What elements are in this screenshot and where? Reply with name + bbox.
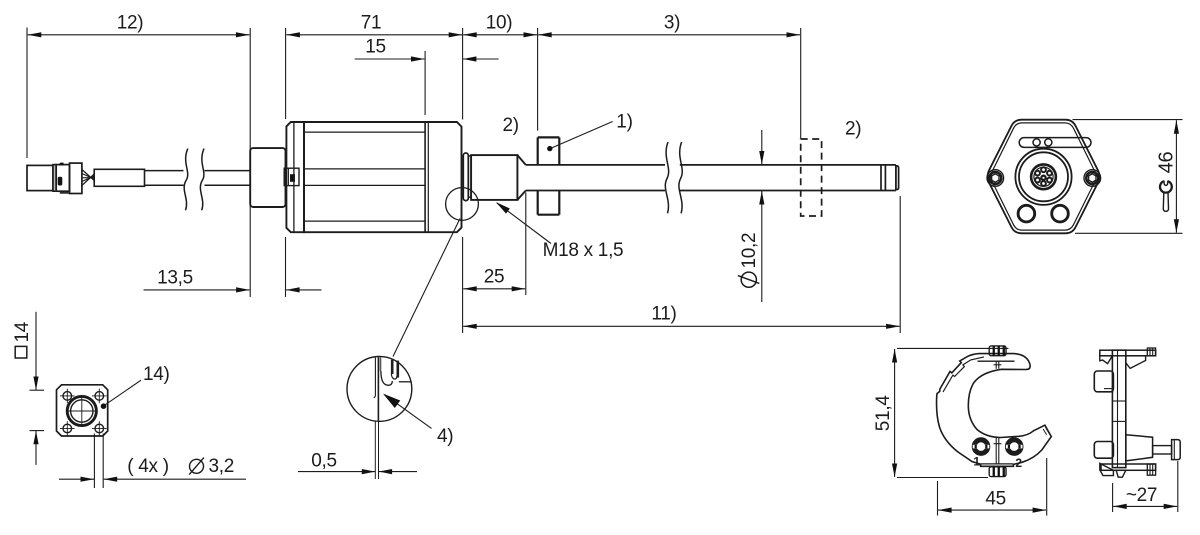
- rod break curve right: [679, 142, 682, 213]
- dimension sq14 arrow bottom: [33, 431, 38, 445]
- svg-text:25: 25: [484, 267, 505, 288]
- detail u cup: [391, 374, 396, 379]
- dimension 15 ext line: [424, 51, 426, 115]
- dimension 46 ext bottom: [1075, 232, 1183, 234]
- hex top slot: [1019, 138, 1091, 148]
- dimension 27 arrow right: [1164, 504, 1178, 509]
- hex connector ring: [1031, 164, 1056, 189]
- dimension 3 line: [538, 34, 800, 36]
- svg-text:15: 15: [365, 37, 386, 58]
- position magnet 1: [538, 137, 560, 214]
- svg-text:1: 1: [973, 455, 980, 469]
- clamp side spine div1: [1112, 400, 1125, 402]
- body inner mid lower line: [304, 184, 425, 186]
- thread M18 body: [471, 155, 517, 200]
- rod break curve left: [665, 142, 668, 213]
- clamp top stem: [995, 361, 997, 369]
- dimension 12 ext line left: [26, 28, 28, 159]
- dimension sq14 arrow top: [33, 377, 38, 391]
- dimension 25 arrow left: [463, 286, 477, 291]
- dimension 12 arrow left: [28, 32, 42, 37]
- dimension dia10,2 label: [738, 233, 760, 288]
- hex slot hole right: [1045, 139, 1052, 146]
- dimension 15 arrow right: [463, 56, 477, 61]
- clamp side top tooth: [1126, 356, 1146, 369]
- dimension 51,4 arrow bottom: [892, 464, 897, 478]
- body left end cap: [286, 122, 304, 232]
- dimension sq14 line bottom: [35, 431, 37, 465]
- body left cap inner line: [293, 122, 295, 232]
- cable break curve right: [200, 149, 204, 211]
- label 14 dot: [101, 403, 107, 409]
- cable break curve left: [184, 149, 188, 211]
- dimension 12 ext line right: [249, 28, 251, 297]
- washer: [468, 156, 471, 197]
- dimension 3,2 label dia: [190, 459, 204, 473]
- dimension 10 ext line right: [537, 28, 539, 131]
- thread chamfer bottom: [517, 191, 525, 200]
- svg-text:12): 12): [117, 13, 144, 34]
- svg-text:4): 4): [437, 426, 453, 447]
- dimension 27 line: [1113, 505, 1177, 507]
- detail inner lines: [391, 360, 394, 374]
- svg-text:0,5: 0,5: [311, 451, 337, 472]
- dimension 11 line: [463, 325, 899, 327]
- label 1 dot: [547, 146, 552, 151]
- svg-text:10): 10): [486, 13, 513, 34]
- dimension 25 ext right: [525, 193, 527, 296]
- dimension 45 ext left: [937, 481, 939, 516]
- clamp bottom bolt: [989, 467, 1006, 477]
- cable connector band: [53, 165, 56, 192]
- dimension 15 line right: [463, 58, 499, 60]
- cable sleeve: [94, 169, 144, 186]
- dimension 13,5 line left: [144, 289, 250, 291]
- dimension 46 ext top: [1073, 119, 1183, 121]
- dimension 11 ext left: [462, 237, 464, 333]
- dimension 51,4 line: [894, 349, 896, 477]
- dimension 11 arrow left: [463, 324, 477, 329]
- dimension 3 arrow right: [787, 32, 801, 37]
- cable connector bottom step: [60, 192, 69, 194]
- dimension 3,2 line right: [104, 478, 246, 480]
- clamp front shoulder inner line: [943, 357, 984, 392]
- dimension 3,2 line left: [59, 478, 94, 480]
- dimension 71 arrow right: [449, 32, 463, 37]
- svg-text:2): 2): [503, 115, 519, 136]
- dimension 3,2 arrow right: [104, 477, 118, 482]
- dimension 11 ext right: [899, 196, 901, 333]
- connector wires: [82, 170, 94, 186]
- rod end groove 1: [880, 165, 882, 191]
- detail shim band: [380, 358, 382, 372]
- connector flange: [250, 148, 285, 207]
- cable connector rear shell: [70, 163, 82, 193]
- clamp side top plate: [1100, 350, 1156, 356]
- dimension dia10,2 line lower: [761, 191, 763, 302]
- clamp side bottom right block: [1147, 464, 1155, 475]
- dimension 71 line: [286, 34, 462, 36]
- hex slot hole left: [1033, 139, 1040, 146]
- svg-text:14): 14): [143, 364, 170, 385]
- detail marker circle: [446, 188, 479, 221]
- dimension 0,5 arrow left: [362, 469, 376, 474]
- clamp side spine inner: [1117, 350, 1119, 467]
- clamp side spine: [1112, 350, 1125, 467]
- o-ring: [463, 153, 468, 201]
- cable lower line: [145, 184, 184, 186]
- rod top line: [526, 164, 665, 166]
- svg-text:~27: ~27: [1126, 485, 1157, 506]
- dimension 3 arrow left: [538, 32, 552, 37]
- svg-text:3,2: 3,2: [209, 456, 235, 477]
- body right cap inner line: [427, 122, 429, 232]
- label M18x1,5 arrow: [496, 202, 510, 214]
- clamp screw 1: [972, 438, 989, 455]
- dimension 13,5 arrow right: [286, 287, 300, 292]
- hex bottom hole left: [1018, 205, 1035, 222]
- dimension 27 ext right: [1177, 461, 1179, 512]
- label 1 leader: [550, 122, 613, 149]
- svg-text:2: 2: [1015, 456, 1022, 470]
- flange center crosshair: [68, 410, 96, 412]
- dimension 27 arrow left: [1113, 504, 1127, 509]
- dimension 10 arrow left: [463, 32, 477, 37]
- clamp side screw shaft: [1153, 446, 1172, 454]
- dimension 51,4 arrow top: [892, 349, 897, 363]
- dimension 46 arrow bottom: [1174, 219, 1179, 233]
- hex boss inner circle: [1019, 152, 1068, 201]
- dimension dia10,2 arrow lower: [759, 191, 764, 205]
- dimension 51,4 ext bottom: [897, 477, 988, 479]
- svg-text:2): 2): [845, 119, 861, 140]
- body main outline: [304, 122, 462, 232]
- flange center inner circle: [71, 400, 93, 422]
- dimension 71 ext line left: [285, 28, 287, 119]
- clamp cut hatching: [1046, 427, 1049, 433]
- svg-text:M18 x 1,5: M18 x 1,5: [543, 240, 624, 261]
- flange neck inner line: [287, 168, 289, 185]
- svg-text:14: 14: [12, 321, 33, 342]
- dimension 13,5 line right: [286, 289, 321, 291]
- flange neck mark: [290, 175, 294, 182]
- clamp side upper box lip: [1104, 391, 1113, 393]
- svg-text:1): 1): [616, 112, 632, 133]
- dimension 71 ext line right: [462, 28, 464, 120]
- hex bottom hole right: [1052, 205, 1069, 222]
- hex screw left: [987, 170, 1004, 187]
- dimension 0,5 line right: [379, 471, 417, 473]
- detail face line: [377, 357, 379, 420]
- clamp side jaw: [1126, 435, 1153, 461]
- dimension 27 ext left: [1112, 483, 1114, 512]
- dimension 51,4 ext top: [897, 347, 1008, 349]
- hex screw right: [1084, 170, 1101, 187]
- flange bolt holes 4x: [60, 389, 107, 436]
- dimension 15 arrow left: [411, 56, 425, 61]
- dimension sq14 tick bottom: [30, 430, 45, 432]
- detail right line: [399, 381, 412, 383]
- cable connector mid section: [56, 165, 69, 192]
- dimension 12 arrow right: [236, 32, 250, 37]
- svg-text:71: 71: [361, 13, 382, 34]
- cable connector plug front box: [27, 165, 53, 190]
- body right cap line: [424, 122, 426, 232]
- hex boss outer circle: [1015, 149, 1071, 205]
- rod end groove 2: [884, 165, 886, 191]
- body inner mid upper line: [304, 168, 425, 170]
- dimension 45 line: [938, 509, 1046, 511]
- clamp bottom stem: [995, 438, 997, 464]
- body inner top line: [304, 131, 425, 133]
- dimension 25 arrow right: [512, 286, 526, 291]
- svg-text:46: 46: [1156, 152, 1178, 174]
- rod bottom line: [526, 190, 665, 192]
- detail j curve: [381, 371, 392, 385]
- clamp side lower left box: [1094, 442, 1113, 459]
- hex flange outer outline: [988, 120, 1100, 234]
- label 14 leader: [105, 380, 141, 405]
- dimension 46 arrow top: [1174, 120, 1179, 134]
- dimension 11 arrow right: [886, 324, 900, 329]
- clamp side top right block: [1147, 348, 1155, 356]
- svg-text:11): 11): [651, 304, 676, 325]
- svg-text:( 4x ): ( 4x ): [127, 456, 168, 477]
- clamp side screw head line: [1173, 440, 1175, 460]
- detail leader line: [393, 219, 460, 357]
- clamp side bottom tooth: [1116, 470, 1126, 477]
- dimension dia10,2 arrow upper: [759, 151, 764, 165]
- clamp front outline: [937, 354, 1052, 467]
- dimension 25 line: [463, 288, 525, 290]
- clamp side top left hook: [1100, 356, 1113, 364]
- square flange outline: [57, 385, 108, 436]
- dimension dia10,2 line upper: [761, 130, 763, 165]
- dimension 15 line left: [355, 58, 425, 60]
- flange neck: [284, 168, 299, 185]
- label 4 arrow: [383, 394, 400, 408]
- detail gap line: [374, 358, 376, 397]
- label M18x1,5 leader: [497, 203, 551, 244]
- wrench symbol: [1160, 181, 1172, 192]
- dimension 45 arrow right: [1033, 508, 1047, 513]
- cable upper line: [145, 170, 184, 172]
- clamp bottom plate line: [981, 463, 1013, 465]
- hex connector pins: [1034, 167, 1053, 186]
- clamp side spine div2: [1112, 420, 1125, 422]
- rod end section line: [895, 166, 897, 190]
- dimension 13,5 ext right: [285, 237, 287, 297]
- dimension sq14 tick top: [30, 389, 45, 391]
- detail gap ext lines: [374, 421, 376, 479]
- clamp side screw head: [1172, 440, 1181, 460]
- dimension 0,5 arrow right: [379, 469, 393, 474]
- dimension 3,2 ext lines: [93, 434, 95, 489]
- clamp side upper left box: [1094, 371, 1113, 392]
- dimension 10 line: [463, 34, 537, 36]
- dimension 3 ext line right: [800, 28, 802, 138]
- dimension 0,5 line left: [298, 471, 375, 473]
- dimension 10 arrow right: [524, 32, 538, 37]
- svg-text:13,5: 13,5: [157, 268, 193, 289]
- clamp screw 2: [1006, 438, 1023, 455]
- rod end tip: [896, 166, 899, 190]
- label 4 leader: [384, 395, 431, 429]
- dimension 13,5 arrow left: [236, 287, 250, 292]
- cable connector slot: [58, 177, 62, 185]
- clamp side bottom left hook: [1100, 463, 1114, 475]
- dimension sq14 label: [12, 321, 33, 358]
- detail circle: [347, 357, 412, 422]
- cable connector latch notch: [58, 163, 63, 166]
- body inner bottom line: [304, 220, 425, 222]
- dimension 12 line: [28, 34, 250, 36]
- clamp top bolt: [989, 346, 1006, 356]
- svg-text:45: 45: [985, 489, 1006, 510]
- clamp side bottom plate: [1101, 464, 1156, 470]
- dimension 46 line: [1175, 120, 1177, 233]
- svg-text:3): 3): [664, 13, 680, 34]
- dimension 3,2 arrow left: [81, 477, 95, 482]
- hex flange inner outline: [991, 123, 1096, 230]
- thread chamfer top: [517, 155, 525, 165]
- dimension 71 arrow left: [286, 32, 300, 37]
- svg-text:51,4: 51,4: [873, 395, 894, 432]
- dimension 45 ext right: [1046, 458, 1048, 516]
- flange center outer circle: [67, 396, 96, 425]
- floating magnet 2 dashed: [801, 139, 822, 216]
- dimension 45 arrow left: [938, 508, 952, 513]
- svg-text:10,2: 10,2: [739, 233, 760, 269]
- dimension sq14 line top: [35, 312, 37, 390]
- clamp front top plate line: [978, 360, 1015, 362]
